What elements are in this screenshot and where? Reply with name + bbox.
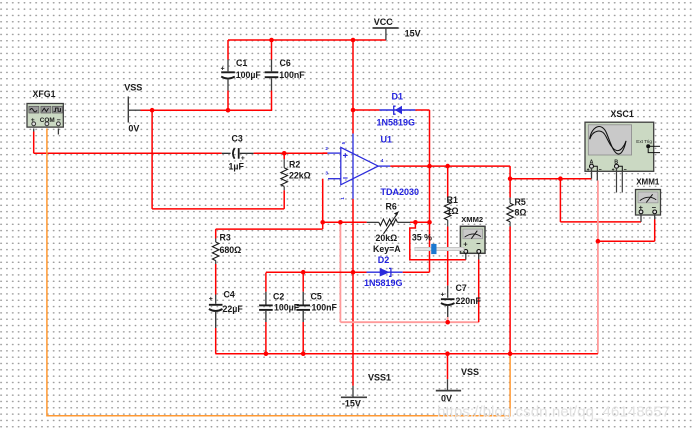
svg-text:C1: C1 [236, 58, 247, 68]
svg-text:XMM1: XMM1 [636, 177, 660, 186]
svg-text:1N5819G: 1N5819G [364, 278, 403, 288]
svg-text:2: 2 [325, 146, 328, 151]
svg-text:XMM2: XMM2 [461, 215, 483, 224]
svg-text:C3: C3 [232, 133, 243, 143]
svg-text:R6: R6 [386, 202, 397, 212]
svg-text:1: 1 [340, 197, 345, 200]
svg-text:0V: 0V [441, 393, 452, 403]
svg-text:D2: D2 [378, 255, 390, 265]
svg-text:R3: R3 [220, 233, 231, 243]
svg-text:15V: 15V [405, 29, 421, 39]
svg-text:C4: C4 [224, 290, 235, 300]
svg-text:C2: C2 [273, 292, 284, 302]
svg-text:8Ω: 8Ω [515, 207, 527, 217]
svg-text:XFG1: XFG1 [33, 89, 56, 99]
svg-text:5: 5 [341, 141, 346, 144]
svg-text:U1: U1 [381, 135, 393, 145]
svg-text:680Ω: 680Ω [220, 245, 242, 255]
svg-text:20kΩ: 20kΩ [376, 233, 398, 243]
svg-text:22kΩ: 22kΩ [289, 171, 311, 181]
svg-text:100nF: 100nF [279, 70, 305, 80]
svg-text:https://blog.csdn.net/qq_46148: https://blog.csdn.net/qq_46148657 [437, 404, 670, 421]
svg-text:1Ω: 1Ω [447, 206, 459, 216]
svg-text:Key=A: Key=A [373, 244, 401, 254]
svg-text:4: 4 [381, 158, 384, 163]
svg-text:22µF: 22µF [223, 304, 244, 314]
svg-text:R1: R1 [447, 195, 458, 205]
svg-text:1µF: 1µF [229, 162, 245, 172]
svg-text:VCC: VCC [374, 17, 394, 27]
svg-text:C7: C7 [456, 283, 467, 293]
svg-text:3: 3 [325, 170, 328, 175]
svg-text:XSC1: XSC1 [610, 109, 634, 119]
svg-text:1N5819G: 1N5819G [377, 118, 416, 128]
svg-text:C6: C6 [280, 58, 291, 68]
svg-text:220nF: 220nF [456, 296, 482, 306]
svg-text:R2: R2 [289, 159, 300, 169]
svg-text:D1: D1 [392, 91, 404, 101]
svg-text:R5: R5 [515, 197, 526, 207]
svg-text:C5: C5 [311, 292, 322, 302]
svg-text:100nF: 100nF [312, 302, 338, 312]
svg-text:VSS1: VSS1 [368, 373, 391, 383]
svg-text:35 %: 35 % [412, 232, 432, 242]
svg-text:100µF: 100µF [236, 70, 262, 80]
svg-text:VSS: VSS [461, 367, 479, 377]
svg-text:-15V: -15V [342, 398, 361, 408]
svg-text:Ext Trig: Ext Trig [636, 139, 652, 144]
svg-text:0V: 0V [128, 123, 139, 133]
svg-text:–: – [476, 239, 481, 248]
svg-text:TDA2030: TDA2030 [381, 187, 420, 197]
svg-text:100µF: 100µF [274, 302, 300, 312]
svg-text:VSS: VSS [124, 83, 142, 93]
